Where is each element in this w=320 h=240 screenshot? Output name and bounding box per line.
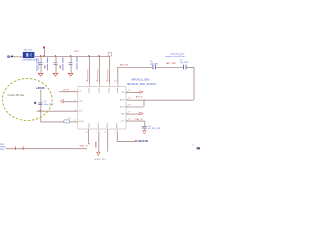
wire [13, 56, 22, 58]
pin names bottom [88, 123, 91, 128]
svg-text:17: 17 [128, 112, 130, 114]
svg-text:CSN: CSN [79, 101, 84, 103]
svg-text:=BLK/N: =BLK/N [137, 139, 148, 143]
net name VDD2 [97, 69, 98, 81]
wire drop VDD2 [99, 56, 101, 84]
value label C2b [47, 58, 48, 64]
net name vertical [95, 142, 96, 148]
svg-text:1p8_NP0: 1p8_NP0 [150, 63, 159, 65]
svg-text:100n_X5R: 100n_X5R [44, 104, 54, 106]
svg-text:ANT_NET: ANT_NET [166, 62, 177, 65]
pin circles right [126, 91, 127, 92]
svg-text:7: 7 [96, 132, 97, 134]
svg-text:Outline DR side: Outline DR side [8, 94, 25, 97]
value label C2 [36, 58, 37, 64]
wire ANT1 up [117, 67, 119, 84]
svg-text:13: 13 [114, 81, 116, 83]
svg-text:+BATT: +BATT [73, 50, 80, 53]
ferrite bead FB1 [23, 52, 35, 58]
svg-text:16: 16 [86, 81, 88, 83]
svg-text:12: 12 [128, 119, 130, 121]
net name VDD3 [107, 69, 108, 81]
svg-text:1p2_NP0: 1p2_NP0 [180, 62, 189, 64]
wire +3V3S down [40, 90, 42, 122]
svg-text:4: 4 [74, 120, 75, 122]
svg-text:8: 8 [86, 132, 87, 134]
pin stubs bottom [87, 129, 89, 144]
svg-text:ANT2: ANT2 [120, 99, 125, 102]
wire ANT2 down [193, 67, 195, 100]
junction [88, 55, 89, 56]
capacitor C3 [54, 56, 58, 73]
svg-text:GND_W: GND_W [79, 146, 88, 148]
wire MOSI [40, 121, 64, 123]
net flag CSN [60, 99, 63, 103]
junction [55, 55, 56, 56]
junction [98, 55, 99, 56]
wire [156, 67, 183, 69]
jumper box [108, 53, 111, 56]
svg-text:DAT_IN: DAT_IN [135, 118, 143, 121]
outline ellipse [2, 79, 52, 121]
junction tick [22, 146, 24, 150]
net name VDD1 [87, 69, 88, 81]
ground [53, 73, 58, 76]
svg-text:14: 14 [106, 81, 108, 83]
svg-text:NRF24L01_SMD_SOCKET: NRF24L01_SMD_SOCKET [127, 83, 157, 86]
wire CE [59, 91, 78, 93]
value label C4 [76, 57, 77, 63]
sheet note [197, 147, 200, 149]
wire main rail [35, 56, 109, 58]
wire DAT [126, 120, 144, 122]
wire MISO bottom [98, 132, 100, 152]
net flag IRQ [126, 92, 140, 94]
svg-text:+3V3S: +3V3S [36, 86, 45, 90]
op-amp U1 body [78, 87, 126, 129]
capacitor C2 [39, 56, 43, 73]
wire ANT2 horizontal [126, 99, 194, 101]
wire BLK [116, 132, 118, 141]
svg-text:GND: GND [121, 113, 126, 115]
svg-text:MOSI: MOSI [79, 121, 84, 123]
svg-text:VCC: VCC [121, 120, 126, 122]
ground [68, 73, 73, 76]
svg-text:18: 18 [128, 105, 130, 107]
junction tick [15, 146, 17, 150]
resistor R2 [64, 120, 70, 123]
capacitor C9 [38, 102, 42, 105]
svg-text:6: 6 [105, 132, 106, 134]
wire SCK [36, 110, 77, 112]
capacitor C4 [69, 56, 73, 73]
svg-text:wideout is for 3W ant: wideout is for 3W ant [165, 55, 185, 58]
power flag +BATT [44, 48, 46, 56]
ground flag MISO [97, 152, 101, 155]
wire ANT1 jog [126, 106, 144, 108]
svg-text:20: 20 [128, 90, 130, 92]
wire CSN [63, 101, 78, 103]
wire bottom rail [6, 148, 87, 150]
junction [43, 55, 44, 56]
wire drop VDD1 [89, 56, 91, 84]
wire ANT1 horizontal [117, 67, 152, 69]
value label C3 [62, 58, 63, 64]
pin stubs top [89, 84, 91, 87]
net flag GND [126, 113, 140, 115]
svg-text:CE_R: CE_R [63, 90, 69, 92]
node marker [34, 102, 36, 104]
svg-text:ANT1: ANT1 [120, 105, 125, 108]
junction [40, 55, 41, 56]
svg-text:keep this l path: keep this l path [170, 53, 185, 56]
svg-text:5: 5 [114, 132, 115, 134]
ground flag [143, 131, 147, 134]
capacitor C7 [182, 65, 185, 70]
junction [70, 55, 71, 56]
wire [187, 67, 194, 69]
svg-text:15: 15 [96, 81, 98, 83]
ground [38, 73, 43, 76]
svg-text:19: 19 [128, 98, 130, 100]
junction [40, 110, 41, 111]
capacitor C12 [142, 125, 147, 128]
svg-text:ANT_R1: ANT_R1 [120, 64, 129, 67]
svg-text:LQH43MN_NR: LQH43MN_NR [22, 60, 37, 62]
svg-text:FB1 742: FB1 742 [24, 50, 33, 52]
svg-text:4n7_NP0_X7R: 4n7_NP0_X7R [148, 128, 161, 130]
pin names top [88, 88, 91, 93]
svg-text:ANT_B: ANT_B [136, 95, 143, 98]
wire drop VDD3 [109, 56, 111, 84]
svg-text:NRF24L01_SMD: NRF24L01_SMD [131, 79, 149, 82]
svg-text:AGND_RF1: AGND_RF1 [95, 158, 107, 161]
capacitor C6 [152, 65, 155, 70]
svg-text:IRQ: IRQ [122, 92, 126, 94]
